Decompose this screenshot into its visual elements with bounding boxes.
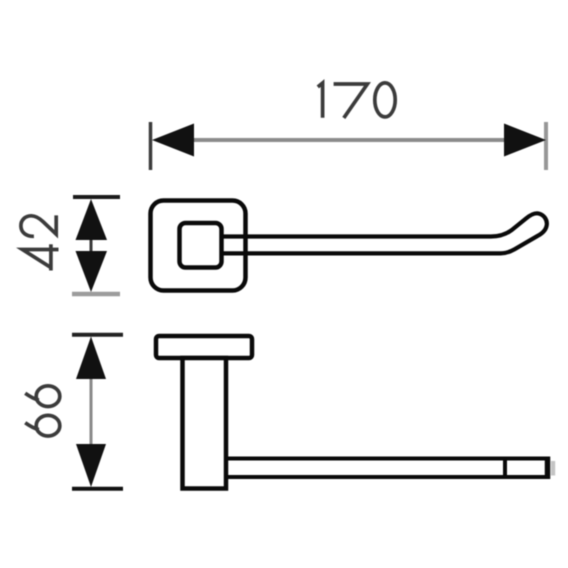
dimension 42 top extension tick <box>73 195 120 199</box>
dimension 170 line <box>190 138 508 142</box>
dimension 66 down arrowhead <box>76 444 106 487</box>
front view wall plate (outer rounded square) <box>151 201 246 291</box>
side view arm bottom edge <box>226 475 549 479</box>
side view arm end shadow <box>551 461 555 476</box>
front view holder bar with upturned tip <box>221 213 547 253</box>
dimension 170 right arrowhead <box>504 124 546 157</box>
side view arm end bar <box>545 457 551 480</box>
dimension 42 label (rotated) <box>21 215 59 270</box>
dimension 42 up arrowhead <box>76 199 108 240</box>
dimension 170 label <box>318 83 395 118</box>
side view arm end-cap divider <box>503 457 507 480</box>
dimension 170 left arrowhead <box>152 124 194 157</box>
dimension 66 bottom extension tick <box>72 487 123 491</box>
dimension 42 down arrowhead <box>76 251 108 292</box>
side view arm top edge <box>226 457 549 461</box>
dimension 42 bottom extension tick <box>72 292 120 297</box>
dimension 66 connecting line <box>90 377 93 446</box>
dimension 66 top extension tick <box>72 333 123 337</box>
dimension 66 label (rotated) <box>25 386 60 436</box>
side view vertical post <box>183 358 227 489</box>
dimension 42 connecting line <box>90 238 93 253</box>
dimension 170 right extension tick <box>544 122 548 170</box>
dimension 170 left extension tick <box>149 122 153 170</box>
side view top mounting plate <box>156 336 252 358</box>
dimension 66 up arrowhead <box>76 337 106 380</box>
front view post boss (inner rounded square) <box>180 223 222 268</box>
